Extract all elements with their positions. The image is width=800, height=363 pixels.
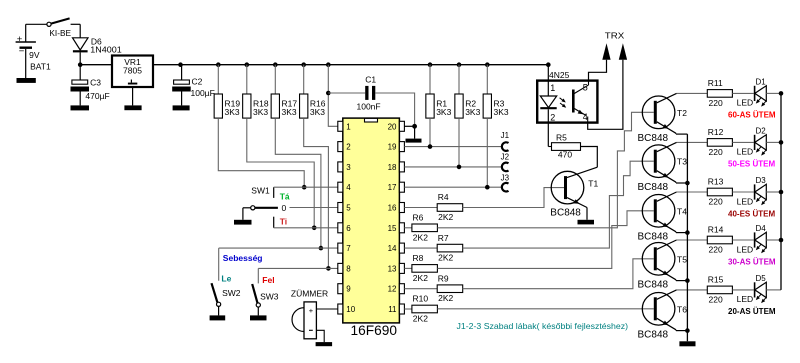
svg-text:2K2: 2K2 xyxy=(438,253,453,263)
svg-text:7805: 7805 xyxy=(123,65,142,75)
svg-text:14: 14 xyxy=(388,244,397,253)
svg-text:Fel: Fel xyxy=(262,275,274,285)
svg-text:T4: T4 xyxy=(677,206,687,216)
svg-text:C1: C1 xyxy=(365,75,376,85)
svg-text:3K3: 3K3 xyxy=(494,107,509,117)
svg-text:100µF: 100µF xyxy=(191,88,215,98)
svg-text:T5: T5 xyxy=(677,254,687,264)
svg-text:R5: R5 xyxy=(556,133,567,143)
svg-text:T1: T1 xyxy=(588,179,598,189)
svg-text:8: 8 xyxy=(346,264,351,273)
svg-text:J2: J2 xyxy=(501,153,510,162)
svg-text:40-ES ÜTEM: 40-ES ÜTEM xyxy=(728,209,775,218)
svg-text:LED: LED xyxy=(737,196,754,206)
svg-text:D4: D4 xyxy=(756,224,767,233)
svg-text:T2: T2 xyxy=(677,108,687,118)
svg-text:17: 17 xyxy=(388,183,397,192)
svg-text:30-AS ÜTEM: 30-AS ÜTEM xyxy=(728,257,776,266)
svg-text:J1: J1 xyxy=(501,131,510,140)
svg-text:20-AS ÜTEM: 20-AS ÜTEM xyxy=(728,307,776,316)
svg-text:C2: C2 xyxy=(192,77,203,87)
svg-text:R9: R9 xyxy=(438,273,449,283)
svg-text:+: + xyxy=(17,34,23,45)
svg-text:3K3: 3K3 xyxy=(225,107,240,117)
svg-text:BC848: BC848 xyxy=(638,133,669,144)
svg-text:20: 20 xyxy=(388,122,397,131)
svg-text:18: 18 xyxy=(388,163,397,172)
svg-text:3K3: 3K3 xyxy=(253,107,268,117)
svg-text:R15: R15 xyxy=(708,275,724,285)
svg-text:R8: R8 xyxy=(413,253,424,263)
svg-text:R14: R14 xyxy=(708,225,724,235)
svg-text:12: 12 xyxy=(388,285,397,294)
svg-text:100nF: 100nF xyxy=(357,102,381,112)
svg-text:7: 7 xyxy=(346,244,351,253)
svg-text:220: 220 xyxy=(709,197,723,207)
svg-text:1N4001: 1N4001 xyxy=(90,45,122,55)
svg-text:220: 220 xyxy=(709,147,723,157)
svg-text:1: 1 xyxy=(550,83,555,93)
svg-text:3K3: 3K3 xyxy=(436,107,451,117)
svg-text:9V: 9V xyxy=(29,50,40,60)
svg-text:−: − xyxy=(19,46,25,57)
svg-text:LED: LED xyxy=(737,244,754,254)
svg-text:2K2: 2K2 xyxy=(413,232,428,242)
svg-text:1: 1 xyxy=(346,122,351,131)
svg-text:LED: LED xyxy=(737,98,754,108)
svg-text:BC848: BC848 xyxy=(550,207,581,218)
svg-text:5: 5 xyxy=(346,204,351,213)
svg-text:R10: R10 xyxy=(413,294,429,304)
svg-text:16: 16 xyxy=(388,204,397,213)
svg-text:R6: R6 xyxy=(413,213,424,223)
svg-text:10: 10 xyxy=(346,305,355,314)
svg-text:LED: LED xyxy=(737,294,754,304)
svg-text:TRX: TRX xyxy=(605,31,625,41)
svg-text:220: 220 xyxy=(709,294,723,304)
svg-text:T6: T6 xyxy=(677,304,687,314)
svg-text:R7: R7 xyxy=(438,233,449,243)
svg-text:SW1: SW1 xyxy=(251,185,270,195)
svg-text:220: 220 xyxy=(709,98,723,108)
svg-text:LED: LED xyxy=(737,147,754,157)
svg-text:2K2: 2K2 xyxy=(438,212,453,222)
svg-text:Ti: Ti xyxy=(280,216,287,226)
svg-text:4N25: 4N25 xyxy=(549,70,570,80)
svg-text:16F690: 16F690 xyxy=(351,323,398,338)
svg-text:C3: C3 xyxy=(90,78,101,88)
svg-text:BAT1: BAT1 xyxy=(30,62,51,72)
svg-text:11: 11 xyxy=(388,305,397,314)
svg-text:SW2: SW2 xyxy=(222,288,241,298)
svg-text:3K3: 3K3 xyxy=(465,107,480,117)
svg-text:R4: R4 xyxy=(438,192,449,202)
svg-text:Tá: Tá xyxy=(280,191,290,201)
svg-text:R11: R11 xyxy=(708,78,723,88)
svg-text:ZÜMMER: ZÜMMER xyxy=(291,289,328,299)
svg-text:BC848: BC848 xyxy=(638,232,669,243)
svg-text:470: 470 xyxy=(558,150,572,160)
svg-text:50-ES ÜTEM: 50-ES ÜTEM xyxy=(728,160,775,169)
svg-text:R12: R12 xyxy=(708,127,724,137)
svg-text:19: 19 xyxy=(388,143,397,152)
svg-text:KI-BE: KI-BE xyxy=(49,28,71,38)
svg-text:470µF: 470µF xyxy=(85,91,109,101)
svg-text:13: 13 xyxy=(388,264,397,273)
svg-text:Le: Le xyxy=(221,273,231,283)
svg-text:D2: D2 xyxy=(756,127,767,136)
svg-text:15: 15 xyxy=(388,224,397,233)
svg-text:BC848: BC848 xyxy=(638,330,669,341)
svg-text:2: 2 xyxy=(346,143,351,152)
svg-text:9: 9 xyxy=(346,285,351,294)
svg-text:3: 3 xyxy=(346,163,351,172)
svg-text:2K2: 2K2 xyxy=(413,273,428,283)
svg-text:2K2: 2K2 xyxy=(413,314,428,324)
svg-text:0: 0 xyxy=(282,203,287,213)
svg-text:J1-2-3 Szabad lábak( későbbi f: J1-2-3 Szabad lábak( későbbi fejlesztésh… xyxy=(457,321,629,331)
svg-text:+: + xyxy=(309,306,314,315)
svg-text:SW3: SW3 xyxy=(260,292,279,302)
svg-text:Sebesség: Sebesség xyxy=(223,253,263,263)
svg-text:D3: D3 xyxy=(756,176,767,185)
svg-text:R13: R13 xyxy=(708,177,724,187)
svg-text:J3: J3 xyxy=(501,173,510,182)
svg-text:BC848: BC848 xyxy=(638,182,669,193)
svg-text:60-AS ÜTEM: 60-AS ÜTEM xyxy=(728,111,776,120)
svg-text:4: 4 xyxy=(346,183,351,192)
svg-text:3K3: 3K3 xyxy=(282,107,297,117)
svg-text:6: 6 xyxy=(346,224,351,233)
svg-text:2: 2 xyxy=(550,113,555,123)
svg-text:3K3: 3K3 xyxy=(310,107,325,117)
svg-text:D1: D1 xyxy=(756,78,767,87)
svg-text:220: 220 xyxy=(709,245,723,255)
svg-text:T3: T3 xyxy=(677,157,687,167)
svg-text:D5: D5 xyxy=(756,274,767,283)
svg-text:2K2: 2K2 xyxy=(438,293,453,303)
svg-text:BC848: BC848 xyxy=(638,280,669,291)
